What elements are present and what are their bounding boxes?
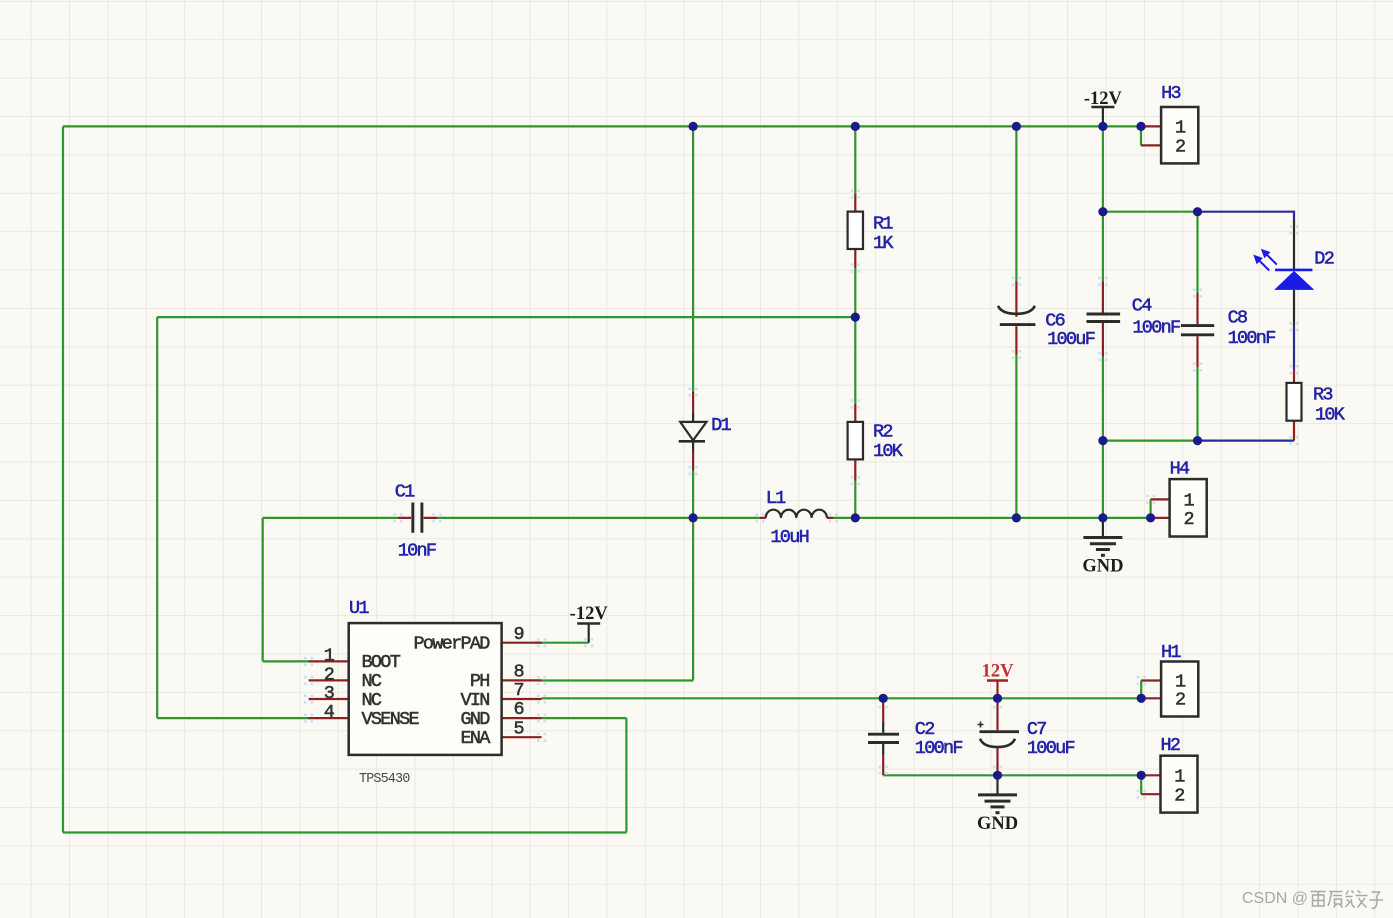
resistor R3	[1287, 365, 1302, 445]
svg-text:-12V: -12V	[570, 604, 609, 624]
wire H1 pin1 riser	[1140, 681, 1142, 699]
node junction top rail at C6	[1012, 122, 1021, 131]
resistor R1	[848, 189, 863, 272]
node junction GND net at C7	[993, 771, 1002, 780]
wire U1 pin8 PH horizontal	[542, 679, 694, 681]
svg-text:GND: GND	[977, 814, 1018, 834]
header H4	[1146, 479, 1207, 536]
svg-text:1: 1	[324, 645, 335, 666]
node junction lower rail at C8	[1193, 436, 1202, 445]
svg-text:GND: GND	[460, 709, 490, 730]
wire C8 bottom	[1196, 367, 1198, 441]
svg-text:10K: 10K	[873, 441, 904, 462]
svg-text:10nF: 10nF	[398, 540, 436, 561]
svg-text:C2: C2	[915, 719, 934, 740]
node junction output at H4	[1146, 513, 1155, 522]
svg-text:2: 2	[1175, 137, 1185, 158]
wire lower rail green part	[1103, 440, 1198, 442]
wire D1 branch upper	[692, 126, 694, 392]
power -12V symbol top	[1091, 107, 1114, 126]
node junction VIN at C7	[993, 694, 1002, 703]
wire H4 pin1 drop	[1149, 499, 1151, 518]
svg-text:100uF: 100uF	[1047, 329, 1095, 350]
wire C6 bottom	[1015, 355, 1017, 518]
svg-text:GND: GND	[1082, 556, 1123, 576]
svg-text:1: 1	[1175, 118, 1186, 139]
ground GND symbol near H4	[1083, 518, 1122, 555]
svg-text:D2: D2	[1314, 248, 1333, 269]
node junction top rail at -12V	[1098, 122, 1107, 131]
svg-text:2: 2	[1174, 785, 1184, 806]
wire second rail green part	[1103, 211, 1198, 213]
wire H2 pin2 drop	[1140, 775, 1142, 794]
svg-text:H1: H1	[1161, 642, 1181, 663]
svg-text:H4: H4	[1170, 459, 1190, 480]
svg-text:10uH: 10uH	[770, 527, 808, 548]
wire C4 top from rail	[1102, 126, 1104, 281]
wire C1 left	[263, 517, 398, 519]
svg-text:U1: U1	[349, 598, 369, 619]
power 12V symbol	[987, 681, 1008, 699]
svg-text:100nF: 100nF	[915, 738, 963, 759]
svg-text:-12V: -12V	[1084, 89, 1123, 109]
svg-text:10K: 10K	[1315, 404, 1346, 425]
svg-text:100uF: 100uF	[1027, 738, 1075, 759]
svg-text:VIN: VIN	[460, 690, 489, 711]
wire blue second rail to D2	[1198, 212, 1295, 221]
wire VSENSE horizontal	[157, 316, 855, 318]
svg-text:D1: D1	[711, 415, 731, 436]
svg-text:1: 1	[1174, 767, 1185, 788]
power -12V symbol at U1 pin9	[577, 624, 600, 648]
wire VSENSE left vertical	[156, 317, 158, 718]
wire to U1 pin4 VSENSE	[157, 717, 310, 719]
wire bottom horizontal of GND-pin loop	[63, 831, 626, 833]
svg-text:ENA: ENA	[460, 728, 491, 749]
svg-text:BOOT: BOOT	[362, 652, 401, 673]
inductor L1	[755, 510, 838, 523]
node junction output at C6	[1012, 513, 1021, 522]
watermark CSDN	[1242, 890, 1383, 908]
svg-text:C1: C1	[395, 482, 415, 503]
svg-text:H3: H3	[1161, 83, 1180, 104]
svg-text:12V: 12V	[982, 661, 1015, 681]
svg-text:C4: C4	[1132, 296, 1152, 317]
wire C6 top	[1015, 126, 1017, 281]
wire C8 top	[1196, 212, 1198, 293]
wire 12V-GND net horizontal	[883, 774, 1141, 776]
svg-text:4: 4	[324, 702, 335, 723]
node junction second rail left	[1098, 207, 1107, 216]
ground GND symbol near C7	[978, 775, 1017, 812]
svg-text:PowerPAD: PowerPAD	[413, 634, 490, 655]
svg-text:1K: 1K	[873, 233, 894, 254]
IC U1 TPS5430	[304, 623, 546, 755]
node junction lower rail at C4	[1098, 436, 1107, 445]
wire L1 right to H4	[833, 517, 1150, 519]
node junction VSENSE at R1/R2	[851, 313, 860, 322]
wire from U1 pin6 GND to loop	[542, 717, 627, 719]
svg-text:TPS5430: TPS5430	[359, 772, 410, 787]
node junction GND net at H2	[1137, 771, 1146, 780]
node junction VIN at H1	[1137, 694, 1146, 703]
node junction top rail at D1	[689, 122, 698, 131]
svg-text:NC: NC	[362, 690, 382, 711]
svg-text:R2: R2	[873, 422, 892, 443]
header H1	[1137, 662, 1199, 717]
wire top -12V rail	[63, 125, 1141, 127]
svg-text:2: 2	[1175, 689, 1185, 710]
diode D1	[679, 387, 707, 475]
wire C4 bottom	[1102, 357, 1104, 518]
wire riser of GND-pin loop	[625, 718, 627, 832]
header H2	[1137, 756, 1198, 813]
svg-text:3: 3	[324, 683, 334, 704]
wire left vertical of GND-pin loop	[62, 126, 64, 832]
capacitor C1	[393, 503, 441, 533]
capacitor C8	[1181, 288, 1214, 371]
node junction top rail at H3	[1136, 122, 1145, 131]
svg-text:VSENSE: VSENSE	[362, 709, 420, 730]
svg-text:9: 9	[514, 624, 524, 645]
node junction second rail at C8	[1193, 207, 1202, 216]
node junction output at R2	[851, 513, 860, 522]
capacitor C6 polarized	[998, 277, 1035, 359]
wire to U1 pin1 BOOT	[263, 660, 309, 662]
svg-text:5: 5	[514, 718, 524, 739]
svg-text:H2: H2	[1161, 735, 1180, 756]
svg-text:100nF: 100nF	[1228, 328, 1276, 349]
wire blue lower rail to R3	[1198, 440, 1295, 442]
capacitor C2	[868, 698, 899, 775]
node junction output at GND	[1098, 513, 1107, 522]
resistor R2	[848, 399, 863, 485]
header H3	[1141, 107, 1198, 163]
wire BOOT vertical	[262, 518, 264, 662]
wire R2 bottom	[854, 481, 856, 518]
svg-text:R3: R3	[1313, 385, 1332, 406]
node junction top rail at R1	[851, 122, 860, 131]
capacitor C4	[1087, 277, 1121, 361]
svg-text:C8: C8	[1228, 307, 1247, 328]
svg-text:7: 7	[514, 680, 524, 701]
svg-text:L1: L1	[766, 488, 786, 509]
wire C1 right to L1	[437, 517, 760, 519]
svg-text:R1: R1	[873, 214, 893, 235]
wire VIN net horizontal	[542, 697, 1142, 699]
wire H3 pin2 drop	[1140, 126, 1142, 145]
node junction output at D1	[689, 513, 698, 522]
node junction VIN at C2	[879, 694, 888, 703]
wire blue D2 to R3	[1293, 327, 1295, 370]
svg-text:CSDN @: CSDN @	[1242, 890, 1308, 907]
wire D1 branch lower to PH	[692, 471, 694, 681]
wire R1 top	[854, 126, 856, 194]
svg-text:C7: C7	[1027, 719, 1046, 740]
wire R1 bottom to R2 top	[854, 268, 856, 404]
svg-text:100nF: 100nF	[1132, 318, 1180, 339]
svg-text:6: 6	[514, 699, 524, 720]
capacitor C7 polarized	[978, 698, 1020, 775]
wire U1 pin9 to -12V symbol	[535, 642, 589, 644]
svg-text:2: 2	[1183, 509, 1193, 530]
LED D2	[1253, 220, 1314, 331]
